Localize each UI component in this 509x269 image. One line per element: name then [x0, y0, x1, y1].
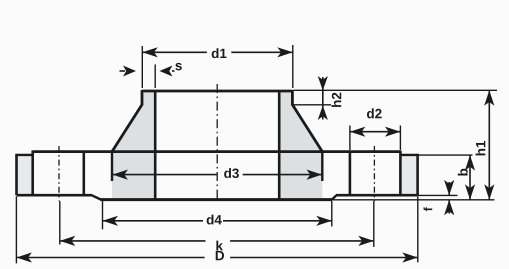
left neck outer edge and taper [112, 90, 142, 152]
dimension b [458, 155, 475, 200]
right raised face step [332, 195, 337, 199]
dimension k [60, 201, 374, 250]
dimension h1 [476, 90, 495, 200]
dimension h2 [318, 76, 342, 120]
left rim top surface [17, 154, 34, 156]
left flange outer edge [15, 154, 18, 195]
left raised face step [92, 195, 102, 199]
flange top surface [33, 150, 401, 153]
right bolt hole axis (dash-dot) [373, 146, 375, 201]
left outer rim section fill [17, 155, 33, 195]
right bore line [278, 90, 281, 200]
dimension f [424, 180, 455, 215]
left bolt hole inner wall [83, 151, 86, 196]
right bolt hole outer wall [399, 151, 402, 196]
dimension s [120, 63, 182, 88]
raised face bottom reference line to f, b, h1 [332, 199, 495, 201]
left bolt hole outer wall [31, 151, 34, 196]
flange top extension line to b [418, 154, 473, 156]
left bolt hole axis (dash-dot) [58, 146, 60, 201]
dimension d2 [350, 108, 401, 150]
left hub edge line (d3 extension) [111, 152, 113, 181]
dimension d1 [142, 45, 292, 88]
raised face bottom surface [101, 198, 333, 201]
dimension d3 [113, 168, 323, 180]
ring bottom extension line to f [418, 194, 458, 196]
h2 lower extension line [294, 104, 332, 106]
right hub edge line (d3 extension) [321, 152, 323, 181]
right outer rim section fill [400, 155, 417, 195]
neck top surface [142, 90, 292, 93]
right rim top surface [400, 154, 418, 156]
right flange outer edge [416, 154, 419, 195]
left hub and neck wall section fill [112, 91, 155, 200]
left ring bottom surface [17, 194, 93, 197]
dimension d4 [103, 201, 332, 229]
dimension D [16, 197, 417, 264]
right ring bottom surface [336, 194, 418, 197]
right bolt hole inner wall [349, 151, 352, 196]
right hub and neck wall section fill [279, 91, 322, 200]
main centre axis (dash-dot) [216, 84, 218, 200]
right neck outer edge and taper [292, 90, 322, 152]
neck top extension line to h1 [294, 89, 498, 91]
left bore line [154, 90, 157, 200]
